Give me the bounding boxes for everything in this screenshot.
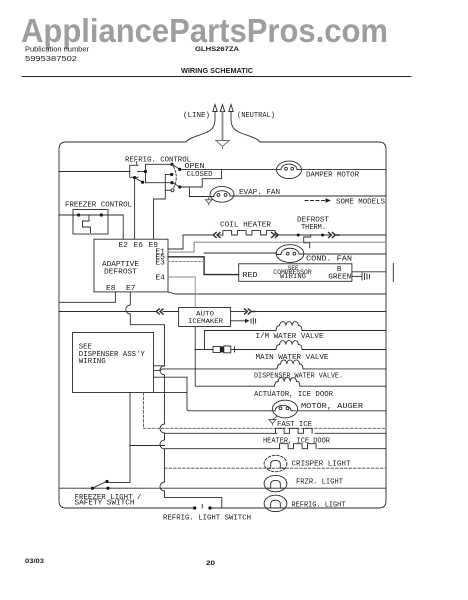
heater defrost coil element — [223, 231, 275, 235]
wire E5 to compressor — [168, 257, 239, 275]
defrost thermostat bimetal — [304, 235, 311, 248]
svg-text:THERM.: THERM. — [301, 224, 326, 232]
svg-text:Publication number: Publication number — [25, 47, 90, 54]
svg-text:ACTUATOR, ICE DOOR: ACTUATOR, ICE DOOR — [254, 391, 334, 399]
switch blade freezer control — [79, 214, 102, 216]
wire icemaker to main valve — [195, 327, 213, 350]
wire ice door heater tee — [130, 445, 165, 447]
wire freezer control feed — [59, 214, 79, 216]
svg-text:E2: E2 — [119, 242, 129, 250]
svg-text:E8: E8 — [106, 285, 116, 293]
wire E6 drop — [134, 178, 136, 239]
svg-text:ICEMAKER: ICEMAKER — [188, 318, 223, 325]
svg-text:DISPENSER WATER VALVE.: DISPENSER WATER VALVE. — [254, 373, 343, 381]
coil heater connector left — [213, 233, 220, 238]
solenoid im water valve — [276, 322, 302, 331]
sensor capillary freezer control — [83, 215, 91, 233]
node damper pickoff contact — [141, 181, 144, 184]
svg-text:WIRING: WIRING — [79, 358, 106, 366]
wire E5 neutral return — [168, 242, 386, 252]
plug prong ground arrowhead — [220, 105, 224, 112]
wire E3 to compressor dashed — [168, 261, 204, 263]
chassis ground icemaker — [251, 318, 256, 324]
wire connector to junction — [138, 171, 146, 173]
connector refrig control — [130, 162, 138, 178]
svg-text:EVAP. FAN: EVAP. FAN — [239, 189, 280, 197]
wire dispenser valve to bus — [303, 368, 386, 370]
wire E4 to icemaker — [168, 277, 195, 308]
wire damper motor to bus — [301, 168, 386, 170]
ground strip right — [392, 264, 394, 282]
wire im valve to bus — [302, 330, 386, 332]
wire junction riser — [145, 164, 147, 182]
wire refrig control feed — [59, 171, 130, 173]
auger motor — [271, 400, 298, 418]
inline connector main valve — [213, 346, 235, 353]
wire defrost therm line — [275, 234, 329, 236]
solenoid actuator ice door — [275, 378, 301, 387]
svg-text:CRISPER LIGHT: CRISPER LIGHT — [292, 461, 352, 469]
wire fast ice to bus — [315, 432, 386, 434]
node pole1 contact — [178, 168, 181, 171]
node defrost therm right — [321, 234, 324, 237]
svg-text:REFRIG. LIGHT SWITCH: REFRIG. LIGHT SWITCH — [163, 515, 251, 523]
wire fast ice feed — [165, 432, 278, 434]
wire alternate lower — [165, 189, 171, 191]
defrost therm connector right — [329, 233, 339, 238]
wire dispenser box stub top — [154, 365, 165, 367]
evap fan motor — [210, 186, 234, 202]
node pole2 contact — [178, 185, 181, 188]
svg-text:REFRIG. LIGHT: REFRIG. LIGHT — [292, 502, 347, 510]
wire terminal B to bus — [352, 271, 386, 273]
lamp freezer light — [264, 475, 287, 491]
wire cond fan to bus — [304, 253, 387, 255]
wire damper motor feed — [180, 168, 277, 170]
svg-text:SOME MODELS: SOME MODELS — [336, 199, 386, 207]
ground auger — [269, 417, 277, 426]
node damper pickoff — [133, 176, 136, 179]
wire ice door heater to bus — [318, 448, 386, 450]
wire icemaker ground lead — [231, 320, 246, 322]
heater ice door — [280, 444, 317, 449]
node pole1 pivot — [170, 163, 173, 166]
compressor box — [239, 264, 352, 282]
svg-text:GLHS267ZA: GLHS267ZA — [195, 46, 239, 53]
node defrost therm left — [297, 234, 300, 237]
wire E8 to line bus — [59, 292, 115, 302]
dispenser box — [73, 333, 154, 393]
ground symbol below plug — [216, 141, 230, 149]
switch refrig light — [195, 505, 211, 509]
node alternate contact lower — [171, 189, 174, 192]
main frame border — [59, 142, 386, 508]
wire icemaker lead — [163, 311, 179, 313]
wire lights riser — [160, 366, 222, 508]
svg-text:COIL HEATER: COIL HEATER — [220, 222, 272, 230]
svg-text:E6: E6 — [134, 242, 144, 250]
node alternate contact upper — [170, 173, 173, 176]
svg-text:DAMPER MOTOR: DAMPER MOTOR — [306, 172, 360, 180]
wire main valve to bus — [302, 349, 386, 351]
svg-text:(LINE): (LINE) — [183, 112, 210, 120]
header rule — [22, 76, 411, 78]
svg-text:(NEUTRAL): (NEUTRAL) — [237, 112, 275, 120]
lamp refrig light — [264, 495, 287, 511]
switch blade damper pickoff — [135, 178, 143, 183]
wire icemaker feed — [59, 311, 156, 313]
chassis ground compressor — [362, 273, 370, 280]
plug prong neutral arrowhead — [229, 105, 233, 112]
svg-text:5995387502: 5995387502 — [25, 56, 77, 63]
svg-text:REFRIG. CONTROL: REFRIG. CONTROL — [125, 157, 191, 165]
svg-text:MOTOR, AUGER: MOTOR, AUGER — [301, 403, 364, 411]
wire ice door heater feed — [165, 448, 281, 450]
wire actuator feed — [195, 350, 274, 387]
plug prong line arrowhead — [213, 105, 217, 112]
wire alternate tie — [154, 175, 166, 240]
wire neutral prong curve — [231, 112, 260, 143]
icemaker connector right — [245, 309, 255, 314]
svg-text:FAST ICE: FAST ICE — [277, 421, 313, 429]
svg-text:FREEZER CONTROL: FREEZER CONTROL — [65, 202, 132, 210]
node freezer control left — [77, 213, 80, 216]
wire main valve lead — [233, 349, 276, 351]
svg-text:HEATER, ICE DOOR: HEATER, ICE DOOR — [263, 438, 331, 446]
coil heater connector right — [272, 233, 279, 238]
wire line prong curve — [186, 112, 215, 143]
svg-text:CLOSED: CLOSED — [187, 171, 214, 179]
wire E1 to coil heater — [168, 235, 213, 249]
svg-text:RED: RED — [243, 272, 259, 280]
switch freezer light safety — [91, 480, 110, 490]
svg-text:20: 20 — [206, 560, 216, 567]
wire green ground lead — [352, 275, 361, 277]
svg-text:WIRING SCHEMATIC: WIRING SCHEMATIC — [181, 68, 253, 75]
wire some models dashed arrow — [305, 200, 325, 202]
svg-text:COND. FAN: COND. FAN — [306, 256, 352, 264]
switch blade pole1 — [172, 164, 180, 169]
wire evap fan feed — [189, 187, 210, 197]
auto icemaker box — [179, 308, 231, 327]
adaptive defrost board box — [94, 239, 168, 292]
wire im valve feed — [205, 331, 277, 350]
solenoid dispenser water valve — [277, 360, 303, 369]
svg-text:E4: E4 — [155, 275, 165, 283]
switch blade pole2 — [172, 182, 180, 187]
wire coil heater lead — [219, 234, 223, 236]
freezer control box — [73, 210, 108, 235]
arc control travel — [174, 167, 177, 189]
svg-text:WIRING: WIRING — [280, 273, 306, 280]
wire evap fan to bus — [234, 195, 386, 197]
wire alternate upper — [165, 174, 171, 176]
solenoid main water valve — [276, 341, 302, 350]
svg-text:I/M WATER VALVE: I/M WATER VALVE — [256, 333, 325, 341]
svg-text:03/03: 03/03 — [25, 558, 45, 565]
svg-text:AUTO: AUTO — [196, 311, 214, 318]
node junction refrig control — [144, 170, 147, 173]
ground evap fan — [205, 197, 212, 206]
wire ground prong stem — [222, 112, 224, 141]
wire compressor bottom to bus — [168, 292, 386, 294]
wire icemaker to bus — [255, 311, 387, 313]
heater fast ice — [276, 428, 313, 433]
wire defrost therm to bus — [339, 234, 386, 236]
icemaker connector left — [156, 309, 163, 314]
svg-text:GREEN: GREEN — [328, 274, 351, 282]
node freezer control right — [100, 213, 103, 216]
wire auger to bus — [297, 410, 386, 412]
svg-text:DEFROST: DEFROST — [104, 269, 138, 277]
wire closed contact run — [180, 169, 222, 187]
wire E7 drop — [126, 292, 165, 366]
wire dispenser drop left — [108, 393, 130, 483]
wire dispenser valve feed — [154, 369, 277, 377]
wire freezer light rail — [59, 487, 386, 489]
wire actuator to bus — [300, 385, 386, 387]
cond fan motor — [276, 245, 304, 263]
svg-text:AppliancePartsPros.com: AppliancePartsPros.com — [21, 13, 388, 50]
wire auger feed — [154, 377, 271, 411]
wire crisper light rail — [165, 467, 387, 469]
wire to pole2 pivot — [146, 182, 173, 184]
svg-text:SAFETY SWITCH: SAFETY SWITCH — [75, 499, 135, 507]
lamp crisper light — [264, 455, 287, 471]
node pole2 pivot — [170, 181, 173, 184]
svg-text:E3: E3 — [155, 259, 165, 267]
damper motor — [277, 161, 302, 178]
svg-text:FRZR. LIGHT: FRZR. LIGHT — [296, 479, 344, 487]
wire to pole1 pivot — [146, 163, 173, 165]
wire dashed rail — [144, 427, 387, 429]
wire icemaker to connector right — [231, 311, 245, 313]
wire dispenser drop dashed — [143, 393, 145, 429]
wire cond fan feed — [204, 252, 276, 254]
wire freezer control to E2 — [101, 215, 123, 239]
